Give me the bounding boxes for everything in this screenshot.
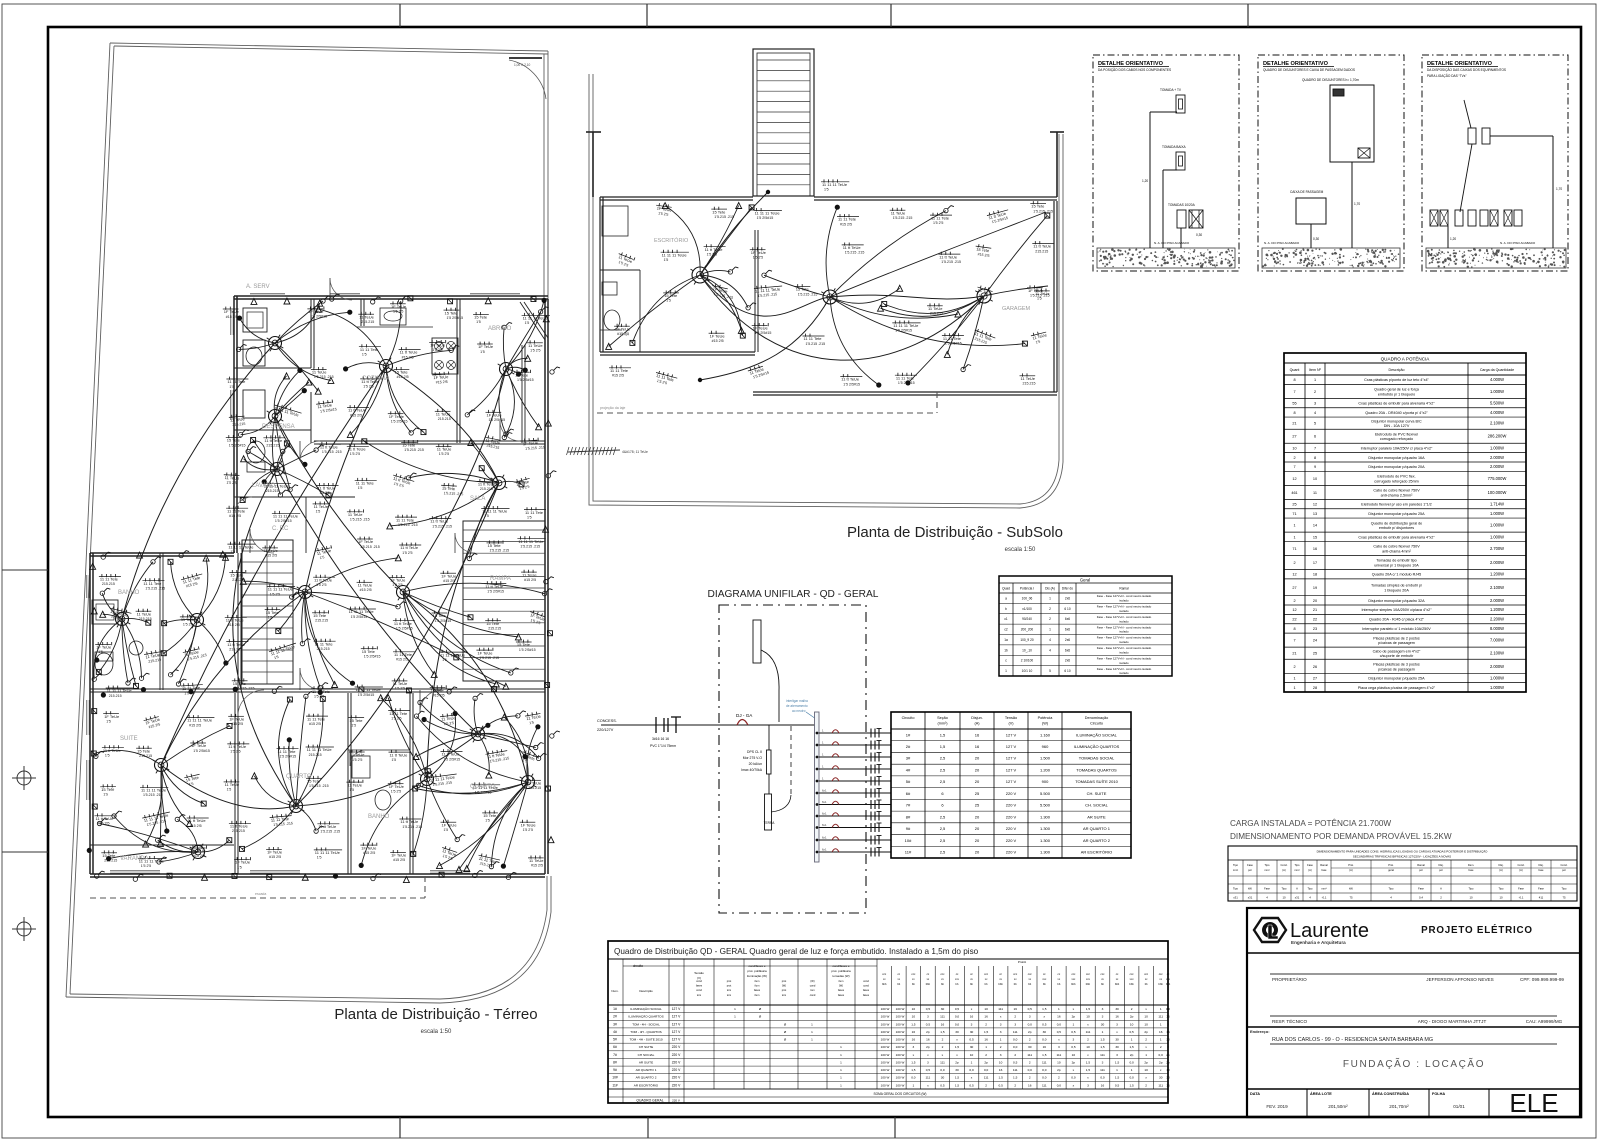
distribution bus bar [815, 712, 820, 862]
svg-text:2: 2 [1167, 1045, 1169, 1049]
svg-text:Cond.: Cond. [1281, 863, 1288, 867]
svg-text:#15 2!5: #15 2!5 [531, 864, 543, 868]
svg-text:10: 10 [1072, 1053, 1076, 1057]
svg-text:0,0: 0,0 [1057, 1022, 1062, 1026]
svg-text:isolado: isolado [1119, 650, 1129, 654]
svg-text:(A): (A) [1282, 868, 1286, 872]
svg-text:12: 12 [1292, 477, 1296, 481]
svg-text:Prot.: Prot. [1388, 863, 1394, 867]
svg-text:2.700W: 2.700W [1490, 546, 1504, 551]
svg-text:(W): (W) [839, 984, 843, 988]
ceiling luminaire T10 with branch wiring [395, 583, 553, 689]
svg-text:11 TeUe: 11 TeUe [347, 782, 362, 787]
svg-text:1'5 2'5: 1'5 2'5 [184, 691, 195, 696]
svg-text:N. A. DO PISO ACABADO: N. A. DO PISO ACABADO [1264, 241, 1300, 245]
svg-text:111: 111 [1158, 1083, 1163, 1087]
subsolo long feeder curves [698, 190, 1048, 382]
branch circuit table [891, 712, 1131, 858]
svg-text:6x1: 6x1 [822, 848, 827, 852]
svg-text:0,0: 0,0 [1057, 1083, 1062, 1087]
svg-text:0,0: 0,0 [1028, 1022, 1033, 1026]
svg-text:111: 111 [1027, 1053, 1032, 1057]
svg-text:2: 2 [942, 1038, 944, 1042]
svg-text:1F TeUe: 1F TeUe [390, 578, 406, 583]
svg-text:1'5 2!5#15: 1'5 2!5#15 [519, 648, 536, 652]
svg-text:isolado: isolado [1119, 609, 1129, 613]
svg-text:220 V: 220 V [1006, 791, 1017, 796]
svg-text:111: 111 [1042, 1083, 1047, 1087]
svg-text:2: 2 [1145, 1083, 1147, 1087]
svg-text:11 11 Tete: 11 11 Tete [100, 577, 119, 582]
subsolo fixtures [602, 206, 628, 330]
svg-text:16: 16 [1115, 1015, 1119, 1019]
svg-text:1F TeUe: 1F TeUe [615, 326, 631, 331]
svg-text:30: 30 [1166, 1076, 1170, 1080]
svg-text:ESCRITÓRIO: ESCRITÓRIO [654, 237, 689, 244]
svg-text:1: 1 [1058, 1007, 1060, 1011]
svg-text:2,5: 2,5 [940, 850, 946, 855]
svg-text:Fase: Fase [1307, 863, 1313, 867]
svg-text:interligar malha: interligar malha [786, 699, 808, 703]
svg-text:1'5: 1'5 [392, 758, 397, 762]
svg-text:1'5: 1'5 [351, 723, 356, 727]
svg-text:1'5: 1'5 [484, 514, 489, 518]
svg-text:55: 55 [1292, 402, 1296, 406]
svg-text:1: 1 [1293, 524, 1295, 528]
svg-text:201,50m²: 201,50m² [1328, 1104, 1348, 1109]
svg-text:6x1: 6x1 [822, 800, 827, 804]
svg-text:15 Tete: 15 Tete [664, 293, 678, 298]
svg-text:11 TeUe: 11 TeUe [359, 314, 374, 319]
svg-text:2,5: 2,5 [940, 767, 946, 772]
svg-text:prot: prot [782, 988, 787, 992]
svg-text:1'5 2'5: 1'5 2'5 [183, 623, 193, 627]
ceiling luminaire S3 with branch wiring [878, 213, 1050, 385]
svg-text:2: 2 [1314, 390, 1316, 394]
svg-text:Potência I: Potência I [1020, 587, 1034, 591]
svg-text:11 11 11 TeUe: 11 11 11 TeUe [315, 850, 341, 855]
svg-text:Descrição: Descrição [1389, 368, 1405, 372]
svg-text:Fase - Fase 127V+N - cond neut: Fase - Fase 127V+N - cond neutro isolado [1097, 646, 1152, 650]
svg-text:Interruptor paralelo 10A/250V: Interruptor paralelo 10A/250V c/ placa 4… [1361, 446, 1433, 450]
svg-text:Dis (A): Dis (A) [1045, 587, 1055, 591]
svg-text:RESP. TÉCNICO: RESP. TÉCNICO [1272, 1018, 1307, 1024]
svg-text:10: 10 [1057, 1060, 1061, 1064]
svg-text:0,5: 0,5 [1042, 1022, 1047, 1026]
svg-text:11 11 Tete: 11 11 Tete [227, 379, 246, 384]
svg-text:1'5 2'5: 1'5 2'5 [530, 349, 540, 353]
svg-text:1'5: 1'5 [476, 320, 481, 324]
svg-text:127 V: 127 V [672, 1007, 681, 1011]
svg-text:11 11 11 TeUe: 11 11 11 TeUe [273, 514, 299, 519]
svg-text:6 10: 6 10 [1064, 607, 1070, 611]
svg-text:15 Tete: 15 Tete [227, 438, 241, 443]
svg-text:Tipo: Tipo [1233, 887, 1239, 891]
svg-text:3: 3 [1102, 1015, 1104, 1019]
svg-text:1'5.215 .215: 1'5.215 .215 [893, 216, 913, 220]
svg-text:2p: 2p [1166, 1060, 1170, 1064]
svg-text:11 11 Tete: 11 11 Tete [931, 215, 950, 220]
svg-text:11 11 Tete: 11 11 Tete [356, 481, 375, 486]
svg-text:Carga da Quantidade: Carga da Quantidade [1480, 368, 1514, 372]
svg-text:isolado: isolado [1119, 619, 1129, 623]
svg-text:2: 2 [1293, 599, 1295, 603]
svg-text:#15 2!5: #15 2!5 [402, 355, 414, 359]
svg-text:LAV.: LAV. [620, 332, 629, 337]
svg-text:215.215: 215.215 [1023, 382, 1036, 386]
svg-text:1F TeUe: 1F TeUe [710, 333, 726, 338]
svg-text:20: 20 [975, 756, 980, 761]
svg-text:11 tt TeUe: 11 tt TeUe [228, 744, 247, 749]
svg-text:1,20: 1,20 [1142, 179, 1148, 183]
svg-text:Quadro de Distribuição QD - G: Quadro de Distribuição QD - GERAL Quadro… [614, 947, 979, 956]
svg-text:1'5 2'5: 1'5 2'5 [230, 750, 240, 754]
svg-text:1,5: 1,5 [940, 1030, 945, 1034]
svg-text:1,20: 1,20 [1450, 237, 1456, 241]
svg-text:1'5 2'5: 1'5 2'5 [392, 583, 402, 587]
svg-text:1'5: 1'5 [229, 385, 234, 389]
svg-text:2p: 2p [1159, 1060, 1163, 1064]
svg-text:DIMENSIONAMENTO POR DEMANDA: DIMENSIONAMENTO POR DEMANDA PROVÁVEL 15.… [1230, 831, 1452, 841]
svg-text:15 Tete: 15 Tete [483, 813, 497, 818]
svg-text:3: 3 [1058, 1045, 1060, 1049]
svg-text:11 11 11 TeUe: 11 11 11 TeUe [482, 509, 508, 514]
svg-text:#15 2!5: #15 2!5 [98, 822, 110, 826]
svg-text:1: 1 [985, 1045, 987, 1049]
svg-text:1F TeUe: 1F TeUe [267, 850, 283, 855]
svg-text:2#: 2# [613, 1015, 617, 1019]
svg-text:3: 3 [971, 1022, 973, 1026]
svg-text:1,5: 1,5 [1129, 1045, 1134, 1049]
svg-text:100 W: 100 W [881, 1015, 890, 1019]
svg-text:ilum: ilum [839, 979, 844, 983]
svg-text:16: 16 [1013, 1007, 1017, 1011]
detail box 3 [1422, 55, 1568, 271]
svg-text:4: 4 [1049, 638, 1051, 642]
svg-text:1F TeUe: 1F TeUe [753, 326, 769, 331]
svg-text:2.000W: 2.000W [1490, 560, 1504, 565]
svg-text:p/caixas de passagem: p/caixas de passagem [1378, 667, 1415, 671]
svg-text:11 11 11 TeUe: 11 11 11 TeUe [141, 788, 167, 793]
svg-text:11 TeUe: 11 TeUe [191, 848, 206, 853]
svg-text:1'5 2'5: 1'5 2'5 [395, 687, 405, 691]
svg-text:Cabo de cobre flexível 750V: Cabo de cobre flexível 750V [1373, 545, 1420, 549]
svg-text:1'5 2!5#15: 1'5 2!5#15 [487, 589, 504, 593]
svg-text:13: 13 [1313, 512, 1317, 516]
svg-text:127 V: 127 V [672, 1015, 681, 1019]
svg-text:1: 1 [1160, 1038, 1162, 1042]
svg-text:1'5.215 .215: 1'5.215 .215 [360, 545, 380, 549]
svg-text:2: 2 [1058, 1076, 1060, 1080]
svg-text:Quadro de distribuição geral d: Quadro de distribuição geral de [1371, 521, 1422, 525]
svg-text:escala 1:50: escala 1:50 [1005, 547, 1036, 553]
svg-text:ilum: ilum [755, 993, 760, 997]
svg-text:15 Tete: 15 Tete [431, 688, 445, 693]
svg-text:215.215: 215.215 [104, 859, 117, 863]
ceiling luminaire T16 with branch wiring [413, 693, 546, 778]
svg-text:1'5: 1'5 [237, 865, 242, 869]
svg-text:11 tt TeUe: 11 tt TeUe [314, 577, 333, 582]
svg-text:11 tt TeUe: 11 tt TeUe [1033, 244, 1052, 249]
svg-text:1'5: 1'5 [485, 819, 490, 823]
svg-text:6x1: 6x1 [822, 812, 827, 816]
svg-text:2p: 2p [1028, 1030, 1032, 1034]
svg-text:2,5: 2,5 [940, 814, 946, 819]
registration mark lower [12, 917, 36, 941]
svg-text:0,0: 0,0 [1013, 1045, 1018, 1049]
address band [1247, 1027, 1580, 1070]
svg-text:1.000W: 1.000W [1490, 685, 1504, 690]
svg-text:AR SUITE: AR SUITE [1087, 814, 1106, 819]
svg-text:QUARTO: QUARTO [286, 774, 312, 780]
svg-text:11 tt TeUe: 11 tt TeUe [230, 824, 249, 829]
svg-text:#15 2!5: #15 2!5 [193, 854, 205, 858]
svg-text:Tensão: Tensão [1005, 716, 1017, 720]
svg-text:2x6: 2x6 [1065, 596, 1070, 600]
svg-text:215.215: 215.215 [315, 619, 328, 623]
svg-text:2p: 2p [1130, 1053, 1134, 1057]
subsolo labels [609, 179, 1054, 387]
svg-text:100 W: 100 W [881, 1053, 890, 1057]
terreo caption [334, 1006, 537, 1035]
svg-text:11 tt TeUe: 11 tt TeUe [390, 752, 409, 757]
svg-text:411: 411 [1539, 896, 1544, 900]
svg-text:(W): (W) [810, 979, 814, 983]
svg-text:5.500: 5.500 [1040, 803, 1051, 808]
svg-text:1.500: 1.500 [1040, 756, 1051, 761]
svg-text:CH. SUITE: CH. SUITE [1087, 791, 1107, 796]
terreo gate door at lot top right [509, 58, 546, 99]
svg-text:100 W: 100 W [881, 1045, 890, 1049]
svg-text:1'5 2!5#15: 1'5 2!5#15 [396, 627, 413, 631]
svg-text:4#: 4# [613, 1030, 617, 1034]
svg-text:100 W: 100 W [881, 1076, 890, 1080]
svg-text:11 TeUe: 11 TeUe [348, 512, 363, 517]
svg-text:kW: kW [1248, 887, 1252, 891]
ceiling luminaire T14 with branch wiring [413, 711, 541, 872]
svg-text:215.215: 215.215 [139, 617, 152, 621]
svg-text:Ramal: Ramal [1320, 863, 1328, 867]
svg-text:30: 30 [941, 1076, 945, 1080]
svg-text:6x6: 6x6 [1065, 617, 1070, 621]
svg-text:1'5.215 .215: 1'5.215 .215 [1030, 294, 1050, 298]
svg-text:1'5.215 .215: 1'5.215 .215 [350, 518, 370, 522]
ceiling luminaire T9 with branch wiring [240, 555, 458, 690]
svg-text:Disjuntor monopolar p/quadro 2: Disjuntor monopolar p/quadro 25A [1368, 676, 1425, 680]
svg-text:15 Tete: 15 Tete [402, 443, 416, 448]
svg-text:0,5: 0,5 [1013, 1060, 1018, 1064]
svg-text:1#: 1# [906, 732, 911, 737]
svg-text:ao neutro: ao neutro [792, 709, 806, 713]
svg-text:220 V: 220 V [672, 1060, 681, 1064]
svg-text:1b: 1b [1004, 648, 1008, 652]
svg-text:1,5: 1,5 [1129, 1083, 1134, 1087]
svg-text:1'5: 1'5 [103, 792, 108, 796]
svg-text:Fase: Fase [1418, 887, 1424, 891]
svg-text:kW: kW [1349, 887, 1353, 891]
owner row [1270, 974, 1564, 1024]
svg-text:Fase - Fase 127V+N - cond neut: Fase - Fase 127V+N - cond neutro isolado [1097, 667, 1152, 671]
terreo wall mounted devices [87, 294, 560, 883]
svg-text:Tipo: Tipo [1499, 887, 1505, 891]
svg-text:Disj.: Disj. [1498, 863, 1503, 867]
svg-text:100 W: 100 W [896, 1022, 905, 1026]
svg-text:DIN - 10A 127V: DIN - 10A 127V [1384, 424, 1410, 428]
svg-text:16: 16 [1166, 1015, 1170, 1019]
svg-text:2: 2 [1049, 617, 1051, 621]
svg-text:2p: 2p [955, 1060, 959, 1064]
svg-text:11 TeUe: 11 TeUe [928, 306, 943, 311]
svg-text:1,70: 1,70 [1354, 202, 1360, 206]
svg-text:1'5 2'5: 1'5 2'5 [316, 583, 326, 587]
svg-text:1'5 2!5#15: 1'5 2!5#15 [755, 331, 772, 335]
ceiling luminaire T3 with branch wiring [465, 298, 549, 440]
svg-text:(A): (A) [1349, 868, 1353, 872]
svg-text:15 Tete: 15 Tete [137, 748, 151, 753]
svg-text:A: A [1296, 887, 1298, 891]
svg-text:25: 25 [975, 791, 980, 796]
svg-text:3: 3 [912, 1045, 914, 1049]
svg-text:Tipo: Tipo [1282, 887, 1288, 891]
svg-text:71: 71 [1292, 512, 1296, 516]
svg-text:11 11 11 TeUe: 11 11 11 TeUe [440, 652, 466, 657]
svg-text:1: 1 [971, 1060, 973, 1064]
svg-text:TOMADA BAIXA: TOMADA BAIXA [1162, 145, 1187, 149]
terreo dashed projection line [90, 876, 425, 898]
svg-text:QUARTO: QUARTO [470, 784, 496, 790]
svg-text:11 tt TeUe: 11 tt TeUe [226, 618, 245, 623]
svg-text:1: 1 [912, 1083, 914, 1087]
svg-text:7#: 7# [613, 1053, 617, 1057]
svg-text:1.300: 1.300 [1040, 826, 1051, 831]
svg-text:#15 2!5: #15 2!5 [226, 315, 238, 319]
svg-text:1: 1 [1314, 378, 1316, 382]
svg-text:16: 16 [975, 744, 980, 749]
svg-text:p/caixas de passagem: p/caixas de passagem [1378, 641, 1415, 645]
svg-text:16: 16 [926, 1038, 930, 1042]
svg-text:Disjun.: Disjun. [971, 716, 983, 720]
terreo circuit labels [95, 301, 550, 869]
svg-text:0,5: 0,5 [926, 1007, 931, 1011]
svg-text:2: 2 [1014, 1083, 1016, 1087]
subsolo stair block [753, 49, 814, 196]
svg-text:111: 111 [940, 1060, 945, 1064]
svg-text:1'5.215 .215: 1'5.215 .215 [309, 784, 329, 788]
laurente logo [1247, 918, 1580, 953]
svg-text:1'5: 1'5 [529, 721, 534, 726]
svg-text:5#: 5# [613, 1038, 617, 1042]
ceiling luminaire T1 with branch wiring [236, 296, 352, 394]
svg-text:1,5: 1,5 [955, 1076, 960, 1080]
svg-text:mm²: mm² [1321, 888, 1326, 891]
svg-text:Fase - Fase 127V+N - cond neut: Fase - Fase 127V+N - cond neutro isolado [1097, 594, 1152, 598]
svg-text:bbb: bbb [926, 982, 931, 986]
svg-text:-0,1: -0,1 [1322, 896, 1327, 900]
svg-text:215.215: 215.215 [317, 647, 330, 651]
svg-text:CAIXA DE PASSAGEM: CAIXA DE PASSAGEM [1290, 190, 1324, 194]
svg-text:bbb: bbb [1086, 982, 1091, 986]
svg-text:isolado: isolado [1119, 630, 1129, 634]
svg-text:#15 2!5: #15 2!5 [269, 855, 281, 859]
svg-text:tom: tom [697, 993, 701, 997]
svg-text:0,0: 0,0 [984, 1068, 989, 1072]
svg-text:16: 16 [984, 1015, 988, 1019]
svg-text:1.000W: 1.000W [1490, 511, 1504, 516]
svg-text:1,5: 1,5 [940, 744, 946, 749]
svg-text:FEV. 2019: FEV. 2019 [1266, 1104, 1288, 1109]
svg-text:Potência: Potência [1038, 716, 1054, 720]
svg-text:ILUMINAÇÃO SOCIAL: ILUMINAÇÃO SOCIAL [1076, 732, 1117, 737]
svg-text:2: 2 [1087, 1038, 1089, 1042]
svg-text:1'5 2!5#15: 1'5 2!5#15 [895, 329, 912, 333]
svg-text:Fase - Fase 127V+N - cond neut: Fase - Fase 127V+N - cond neutro isolado [1097, 656, 1152, 660]
terreo house outer walls [90, 296, 548, 877]
svg-text:2: 2 [1293, 561, 1295, 565]
terreo door swing arcs [234, 278, 520, 766]
svg-text:ABRIGO: ABRIGO [488, 326, 512, 332]
svg-text:BANHO: BANHO [118, 590, 140, 596]
svg-text:20: 20 [975, 779, 980, 784]
svg-text:11 tt TeUe: 11 tt TeUe [318, 824, 337, 829]
svg-text:#15 2!5: #15 2!5 [840, 222, 852, 226]
svg-text:0,5: 0,5 [1071, 1045, 1076, 1049]
svg-text:0,5: 0,5 [969, 1038, 974, 1042]
svg-text:1'5.215 .215: 1'5.215 .215 [314, 375, 334, 379]
svg-text:#15 2!5: #15 2!5 [229, 514, 241, 518]
svg-text:3: 3 [1116, 1053, 1118, 1057]
svg-text:DIMENSIONAMENTO PARA UNIDADES: DIMENSIONAMENTO PARA UNIDADES CONS. HIDR… [1317, 849, 1489, 854]
svg-text:220 V: 220 V [1006, 814, 1017, 819]
svg-text:1'5.215 .215: 1'5.215 .215 [322, 450, 342, 454]
svg-text:10: 10 [1130, 1022, 1134, 1026]
svg-text:Fase - Fase 127V+N - cond neut: Fase - Fase 127V+N - cond neutro isolado [1097, 636, 1152, 640]
svg-text:2: 2 [985, 1083, 987, 1087]
svg-text:1'5 2!5#15: 1'5 2!5#15 [275, 519, 292, 523]
svg-text:20: 20 [975, 814, 980, 819]
grounding note (blue) [786, 699, 816, 719]
svg-text:Fase: Fase [1538, 887, 1544, 891]
svg-text:3: 3 [1000, 1022, 1002, 1026]
svg-text:0,4: 0,4 [1419, 896, 1423, 900]
svg-text:2p: 2p [1166, 1053, 1170, 1057]
svg-text:15 Tete: 15 Tete [486, 621, 500, 626]
svg-text:28: 28 [1313, 686, 1317, 690]
svg-text:#15 2!5: #15 2!5 [231, 722, 243, 726]
svg-text:DESPENSA: DESPENSA [262, 424, 295, 430]
svg-text:20: 20 [975, 838, 980, 843]
svg-text:CPF: 099.999.999-99: CPF: 099.999.999-99 [1520, 977, 1564, 982]
svg-text:10: 10 [1144, 1022, 1148, 1026]
svg-text:COZINHA: COZINHA [362, 376, 389, 382]
svg-text:1'5 2!5#15: 1'5 2!5#15 [757, 216, 774, 220]
svg-text:RAMPA: RAMPA [490, 576, 511, 582]
svg-text:Disjuntor monopolar curva B/C: Disjuntor monopolar curva B/C [1371, 419, 1422, 423]
svg-text:11 tt TeUe: 11 tt TeUe [96, 816, 115, 821]
svg-text:GARAGEM: GARAGEM [1002, 306, 1031, 312]
svg-text:11 tt TeUe: 11 tt TeUe [939, 254, 958, 259]
svg-text:QUADRO A POTÊNCIA: QUADRO A POTÊNCIA [1381, 355, 1431, 362]
svg-text:8: 8 [1293, 411, 1295, 415]
svg-text:1F TeUe: 1F TeUe [477, 650, 493, 655]
svg-text:1'5 2!5#15: 1'5 2!5#15 [193, 749, 210, 753]
svg-text:iluminação (W): iluminação (W) [747, 974, 767, 978]
svg-text:2p: 2p [1057, 1068, 1061, 1072]
svg-text:5#: 5# [906, 779, 911, 784]
svg-text:(W): (W) [782, 984, 786, 988]
svg-text:cond: cond [863, 979, 869, 983]
svg-text:ÁREA CONSTRUÍDA: ÁREA CONSTRUÍDA [1372, 1091, 1409, 1096]
svg-text:corrugado reforçado: corrugado reforçado [1380, 437, 1413, 441]
